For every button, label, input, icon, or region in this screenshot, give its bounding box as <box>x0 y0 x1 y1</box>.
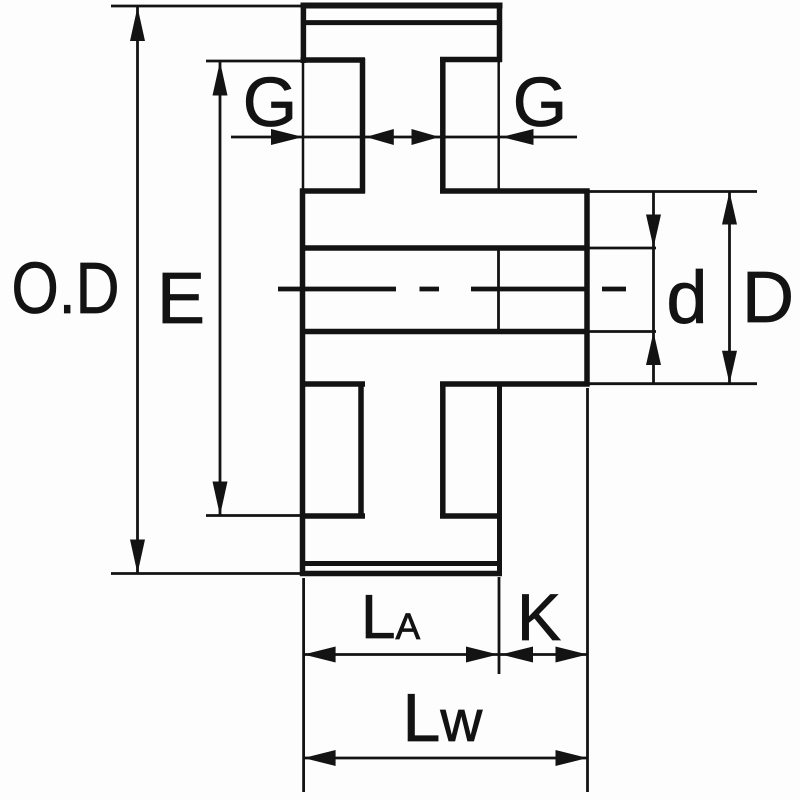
top notch projection line left <box>302 62 305 190</box>
top flange underside left <box>301 57 366 63</box>
G left inner arrow (points left) <box>366 129 394 145</box>
bottom flange top edge right <box>440 513 502 519</box>
O.D arrow up <box>130 7 145 41</box>
bottom web right side <box>440 382 446 519</box>
D dimension line <box>728 192 731 384</box>
bottom flange bottom edge (tooth tip line) <box>300 571 502 577</box>
top web left side <box>360 58 366 193</box>
svg-text:d: d <box>666 256 707 339</box>
center block top edge right (to hub) <box>440 188 590 194</box>
O.D extension line bottom <box>111 572 301 575</box>
svg-text:Lw: Lw <box>403 680 484 756</box>
K arrow right <box>556 647 588 663</box>
G left outer arrow (points right) <box>271 129 303 145</box>
LA/K extension line middle <box>498 577 501 674</box>
LA/K/Lw extension line right (hub) <box>586 388 589 792</box>
LA arrow left <box>304 647 336 663</box>
svg-text:G: G <box>513 63 567 141</box>
d extension line bottom (bore) <box>589 330 656 333</box>
center block bottom edge right (to hub) <box>440 381 590 387</box>
O.D dimension line <box>136 6 139 574</box>
G right inner arrow (points right) <box>412 129 440 145</box>
G dimension line <box>231 136 577 139</box>
LA and K dimension line <box>304 653 588 656</box>
body left edge <box>300 189 306 577</box>
center block bottom edge left <box>300 381 365 387</box>
top flange second tip line <box>306 20 497 25</box>
K arrow left <box>501 647 533 663</box>
bore top line <box>300 245 590 251</box>
D arrow down <box>722 351 737 384</box>
svg-text:O.D: O.D <box>12 249 120 329</box>
svg-text:D: D <box>742 258 794 338</box>
svg-text:E: E <box>157 259 205 339</box>
d arrow up (below bore) <box>646 332 661 365</box>
hub right edge <box>584 189 590 387</box>
bore bottom line <box>300 329 590 335</box>
Lw arrow right <box>556 750 588 766</box>
LA/K extension line left <box>302 578 305 792</box>
O.D arrow down <box>130 540 145 574</box>
O.D extension line top <box>111 5 301 8</box>
G right outer arrow (points left) <box>502 129 534 145</box>
bore plate/hub boundary <box>497 251 500 330</box>
D arrow up <box>722 192 737 225</box>
bottom flange second tip line <box>305 561 497 566</box>
svg-text:K: K <box>517 580 561 654</box>
top flange underside right <box>440 57 502 63</box>
Lw arrow left <box>304 750 336 766</box>
d arrow down (above bore) <box>646 215 661 248</box>
center line (dash-dot) <box>278 287 626 292</box>
E extension line bottom <box>206 514 301 517</box>
D extension line bottom (hub) <box>589 382 757 385</box>
Lw dimension line <box>304 757 588 760</box>
top web right side <box>440 58 446 193</box>
top flange top edge (tooth tip line) <box>301 3 503 9</box>
bottom flange top edge left <box>300 513 365 519</box>
d dimension line <box>652 192 655 384</box>
bottom web left side <box>358 382 364 519</box>
svg-text:G: G <box>243 63 297 141</box>
bottom right plate edge <box>497 382 502 577</box>
E arrow up <box>213 62 228 96</box>
D extension line top (hub) <box>589 190 757 193</box>
top flange left edge <box>301 3 307 63</box>
E dimension line <box>219 61 222 516</box>
top flange right edge <box>497 3 503 63</box>
center block top edge left <box>300 188 365 194</box>
svg-text:LA: LA <box>361 583 420 652</box>
top notch projection line right <box>497 61 500 190</box>
E arrow down <box>213 482 228 516</box>
LA arrow right <box>466 647 498 663</box>
E extension line top <box>206 60 363 63</box>
d extension line top (bore) <box>589 247 656 250</box>
